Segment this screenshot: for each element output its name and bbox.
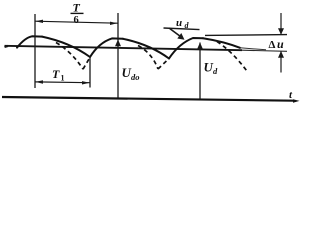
wire: hump2 rising branch [90,38,123,57]
T1 left arrowhead [35,80,43,83]
time axis arrowhead [293,99,300,103]
wire: hump3 rising branch [169,38,203,59]
dashed sine2 rising into cusp1 [83,58,90,69]
svg-text:T: T [52,67,60,81]
left edge start blob [5,46,9,47]
dimension tick at x=90 (T1 right, from cusp down) [89,58,91,88]
T1 dimension line [35,81,90,84]
dashed sine3 rising into cusp2 [158,59,169,69]
delta-u upper arrow (down) [280,13,282,34]
svg-text:T: T [73,1,81,15]
wire: hump1 rising branch [17,36,42,47]
svg-text:1: 1 [61,74,65,83]
delta-u lower arrow (up) [280,52,282,73]
wire: hump2 discharge segment [123,39,169,59]
svg-text:U: U [204,60,214,75]
peak level reference line [205,34,287,37]
U_do measurement line (also T/6 right tick) [117,13,119,98]
T/6 left arrowhead [35,20,43,23]
svg-text:do: do [131,72,140,82]
T1 right arrowhead [82,81,90,84]
svg-text:6: 6 [74,15,79,26]
T/6 dimension line [35,21,118,23]
dimension tick at x=35 (T/6 and T1 left) [34,14,36,88]
wire: hump3 discharge thin tail [240,48,266,50]
U_d up arrowhead [197,43,203,50]
svg-text:U: U [122,65,132,80]
svg-text:u: u [176,17,182,29]
U_d measurement line [199,43,201,100]
time axis [2,97,294,101]
U_do up arrowhead [115,40,121,47]
u_d leader arrow [169,28,181,37]
wire: hump1 discharge segment [42,37,90,57]
wire: hump3 discharge segment [203,38,240,48]
dashed sine2 continuation left [138,46,158,70]
average level line U_do (long horizontal, slight scan skew) [5,46,243,50]
average level line thin right extension [242,50,287,51]
dashed sine1 continuation left [56,43,83,70]
u_d label underline [164,28,200,30]
T/6 right arrowhead [110,22,117,25]
dashed sine3 continuation [217,42,248,73]
svg-text:u: u [277,37,284,51]
svg-text:Δ: Δ [269,39,276,51]
u_d leader arrowhead [177,33,184,40]
